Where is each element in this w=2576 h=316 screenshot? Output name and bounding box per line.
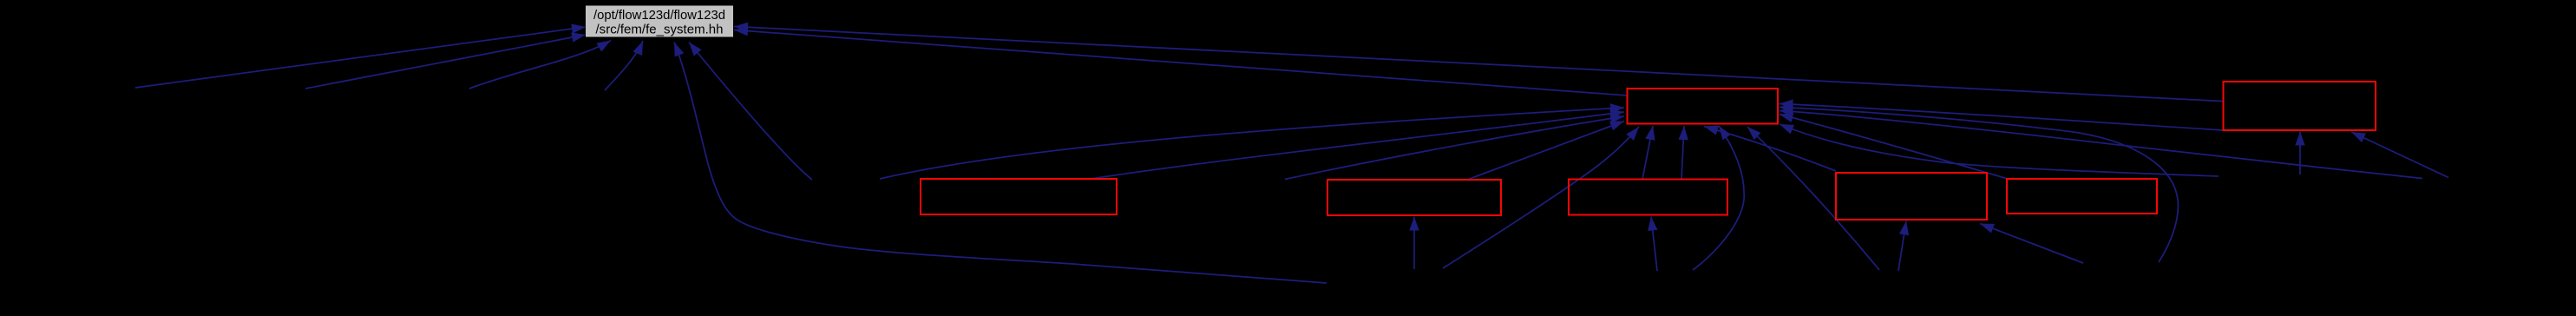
svg-text:/opt/flow123d/flow123d: /opt/flow123d/flow123d bbox=[593, 9, 725, 23]
wire VB vertical into box B bottom bbox=[1413, 217, 1415, 270]
wire e5 long bottom spline into grey box bottom bbox=[674, 43, 1327, 284]
wire H2 from box C top bbox=[1642, 126, 1653, 180]
node red box D bbox=[1836, 173, 1987, 220]
node red box C bbox=[1569, 180, 1727, 215]
wire e6 curve into grey box bottom right bbox=[689, 43, 812, 181]
node grey box /opt/flow123d/flow123d /src/fem/fe_system.hh bbox=[586, 5, 734, 37]
wire Dcorner diagonal into box D bottom-right corner bbox=[1980, 224, 2083, 264]
wire f1 from box F bottom-left corner into big box right edge bbox=[1780, 104, 2224, 131]
wire VD vertical into box D bottom bbox=[1898, 221, 1906, 272]
wire e1 far-left to grey box left edge bbox=[135, 27, 586, 88]
node red box A bbox=[921, 179, 1117, 214]
wire G2 from box A top into big box left edge bbox=[1091, 112, 1624, 179]
wire e4 steep into grey box bottom bbox=[605, 41, 643, 90]
wire VF vertical into box F bottom bbox=[2299, 132, 2301, 175]
wire La long line F to grey box right edge bbox=[734, 27, 2224, 102]
wire L2 big box to grey box right edge bbox=[734, 30, 1628, 96]
wire f3 from far right into big box right edge bbox=[1780, 111, 2423, 179]
wire f2 S-curve from below into big box right edge bbox=[1780, 108, 2179, 263]
wire H1 curve into big box bottom left bbox=[1443, 127, 1639, 268]
wire e3 to grey box bottom-left corner bbox=[469, 41, 611, 89]
wire Hx from box D top-left corner into big box bottom bbox=[1704, 127, 1836, 172]
wire e2 left to grey box left edge bbox=[305, 35, 586, 89]
wire H3 vertical from box C top bbox=[1681, 126, 1684, 180]
wire H5 long diagonal into big box bottom right bbox=[1747, 127, 1879, 270]
wire VC vertical into box C bottom bbox=[1651, 217, 1657, 272]
node red box B bbox=[1327, 180, 1501, 215]
node red box top right F bbox=[2224, 82, 2376, 130]
node red box center bbox=[1628, 89, 1779, 124]
wire G4 from box B top into big box left edge bbox=[1467, 122, 1624, 181]
svg-text:/src/fem/fe_system.hh: /src/fem/fe_system.hh bbox=[596, 23, 724, 37]
node red box E bbox=[2007, 179, 2157, 214]
wire f4 from box E top into big box right edge bbox=[1780, 115, 2009, 180]
wire G1 into big box left edge bbox=[880, 108, 1624, 179]
wire f5 into big box bottom-right corner bbox=[1780, 124, 2219, 176]
wire DF diagonal into box F bottom right bbox=[2351, 132, 2448, 178]
wire H4 S-curve into big box bottom bbox=[1693, 126, 1744, 270]
wire G3 into big box left edge bbox=[1285, 116, 1624, 180]
